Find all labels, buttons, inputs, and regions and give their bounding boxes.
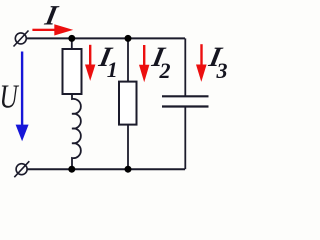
svg-text:1: 1 [107, 57, 118, 82]
current arrow I [32, 24, 73, 35]
resistor R1 [63, 49, 82, 94]
current arrow I2 [139, 45, 149, 82]
wire branch2 top [127, 38, 129, 81]
voltage arrow U [16, 52, 29, 142]
wire capacitor bottom [184, 107, 186, 170]
wire capacitor top [184, 38, 186, 96]
node C: bottom branch1 junction [68, 166, 75, 173]
wire top horizontal [27, 37, 185, 39]
bottom terminal [14, 161, 29, 177]
wire branch1 top [71, 38, 73, 48]
node B: top branch2 junction [125, 35, 132, 42]
current arrow I3 [196, 44, 207, 82]
top terminal [14, 31, 29, 47]
svg-text:U: U [0, 78, 20, 115]
svg-text:3: 3 [216, 58, 228, 83]
resistor R2 [119, 82, 137, 125]
node A: top branch1 junction [68, 35, 75, 42]
wire branch2 bottom [127, 126, 129, 170]
svg-text:2: 2 [159, 58, 171, 83]
wire bottom horizontal [27, 168, 185, 170]
capacitor C1 [162, 96, 209, 106]
node D: bottom branch2 junction [125, 166, 132, 173]
current arrow I1 [85, 45, 95, 81]
inductor L1 [72, 95, 81, 169]
